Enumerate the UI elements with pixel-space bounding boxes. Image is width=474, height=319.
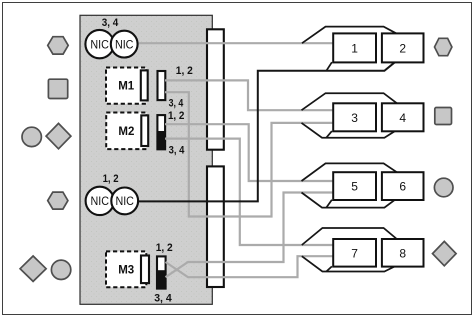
svg-text:M2: M2 (118, 126, 134, 138)
module M2 (dashed box) (106, 113, 146, 150)
cable plug symbol row 2 crimp (326, 131, 332, 138)
cable plug symbol row 3 crimp (326, 200, 332, 208)
NIC circle 2a (86, 187, 114, 215)
right symbol hexagon (row 1) (435, 38, 452, 55)
left symbol hexagon (bottom) (48, 192, 68, 209)
plug P3 (M3) white upper part (157, 256, 166, 288)
svg-text:8: 8 (399, 246, 406, 260)
NIC circle 2b (111, 188, 138, 215)
cable plug symbol row 1 crimp (326, 62, 332, 71)
svg-text:3, 4: 3, 4 (169, 98, 184, 110)
NIC circle 1b (111, 31, 138, 58)
cable plug symbol row 3 lower outline (302, 193, 395, 208)
svg-text:3, 4: 3, 4 (154, 293, 172, 305)
wire NIC pair 2 to plug 1 underside (black) (137, 62, 395, 201)
wire M1 ports 3,4 to plug 3 (lower) (165, 92, 334, 216)
port box 5 (333, 172, 376, 200)
midplane connector J1 (upper tall rectangle) (207, 29, 224, 149)
svg-text:3: 3 (351, 111, 358, 125)
svg-text:5: 5 (351, 180, 358, 194)
left symbol diamond (bottom) (20, 256, 46, 281)
module M1 (dashed box) (106, 68, 146, 104)
module M1 connector (141, 70, 148, 100)
port box 6 (382, 172, 424, 200)
cable plug symbol row 2 upper outline (302, 93, 397, 110)
midplane connector J2 (lower tall rectangle) (207, 166, 224, 287)
port box 3 (333, 103, 376, 131)
svg-text:1, 2: 1, 2 (156, 242, 173, 254)
svg-text:3, 4: 3, 4 (102, 17, 119, 29)
wire M3 ports 3,4 to plug 5 (lower), crossover (166, 193, 335, 278)
port box 1 (333, 33, 376, 62)
wire M3 ports 1,2 to plug 7 (lower), crossover (166, 256, 335, 277)
svg-text:M1: M1 (118, 81, 135, 93)
NIC circle 1a (85, 30, 113, 58)
left symbol hexagon (top) (48, 37, 68, 54)
svg-text:1: 1 (351, 42, 358, 56)
svg-text:4: 4 (399, 111, 406, 125)
svg-text:M3: M3 (118, 264, 134, 276)
module M3 connector (141, 256, 149, 284)
plug P1 (M1 ports 1-4, white) (158, 71, 166, 100)
left symbol square (48, 79, 67, 98)
svg-text:2: 2 (399, 42, 406, 56)
port box 2 (382, 33, 424, 62)
svg-text:1, 2: 1, 2 (103, 173, 119, 185)
cable plug symbol row 3 upper outline (302, 163, 397, 181)
port box 4 (382, 103, 424, 131)
plug P2 (M2) white upper half (157, 115, 165, 149)
svg-text:1, 2: 1, 2 (168, 110, 185, 122)
right symbol diamond (row 4) (433, 241, 457, 265)
wire M2 ports 3,4 to plug 7 (upper) (165, 139, 334, 245)
cable plug symbol row 1 (upper outline) (302, 27, 397, 44)
port box 8 (382, 239, 424, 267)
plug P2 black lower half (157, 131, 165, 149)
port box 7 (333, 239, 376, 267)
svg-text:NIC: NIC (90, 37, 109, 51)
wire NIC pair 1 to plug 1 (137, 42, 334, 44)
chassis backplane (gray box) (80, 15, 212, 304)
right symbol circle (row 3) (434, 178, 453, 197)
module M3 (dashed box) (106, 251, 146, 287)
wire M1 ports 1,2 to plug 3 (upper) (165, 80, 334, 110)
svg-text:6: 6 (399, 180, 406, 194)
module M2 connector (141, 115, 148, 146)
left symbol circle (bottom) (51, 260, 70, 279)
left symbol circle (row 3) (22, 127, 41, 146)
svg-text:3, 4: 3, 4 (169, 145, 186, 157)
svg-text:7: 7 (351, 246, 358, 260)
svg-text:1, 2: 1, 2 (176, 65, 193, 77)
svg-text:NIC: NIC (115, 37, 134, 51)
svg-text:NIC: NIC (91, 194, 110, 208)
cable plug symbol row 4 upper outline (302, 228, 397, 245)
svg-text:NIC: NIC (115, 194, 134, 208)
plug P3 black lower part (157, 270, 166, 288)
cable plug symbol row 4 crimp (326, 266, 332, 271)
cable plug symbol row 2 lower outline (302, 123, 395, 138)
right symbol square (row 2) (435, 108, 452, 125)
left symbol diamond (row 3) (46, 123, 71, 148)
cable plug symbol row 4 lower outline (302, 256, 395, 271)
wire M2 ports 1,2 to plug 5 (upper) (165, 124, 334, 181)
